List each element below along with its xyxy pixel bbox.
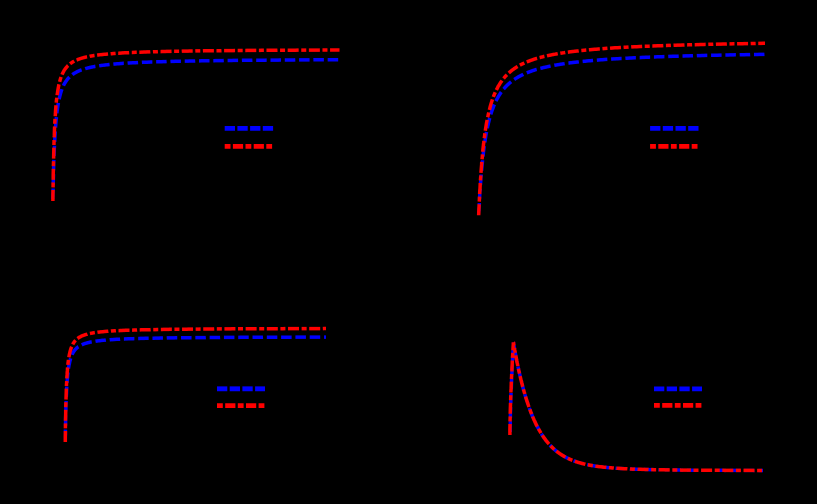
legend TL blue handle [225, 126, 274, 131]
curve TL red dash-dot [53, 50, 340, 201]
curve BR red dash-dot [510, 342, 763, 470]
curve BL blue dashed [65, 337, 326, 440]
legend BR red handle [654, 403, 702, 408]
legend BR blue handle [654, 386, 702, 391]
curve TL blue dashed [53, 60, 340, 199]
legend BL blue handle [217, 386, 265, 391]
legend BL red handle [217, 403, 265, 408]
curve BL red dash-dot [65, 329, 326, 443]
curve TR blue dashed [479, 54, 765, 213]
legend TR blue handle [650, 126, 699, 131]
legend TR red handle [650, 144, 699, 149]
curve BR blue dashed [510, 342, 763, 470]
legend TL red handle [225, 144, 273, 149]
curve TR red dash-dot [479, 43, 765, 215]
